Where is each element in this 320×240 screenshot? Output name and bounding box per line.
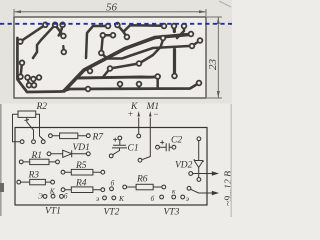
wire R2 left lead: [13, 114, 21, 142]
wire middle horizontal y77: [76, 77, 158, 78]
node pads R1: [19, 160, 23, 164]
gray wash of top photo region: [0, 0, 232, 104]
capacitor C1: [112, 140, 127, 155]
dimension 56 line: [14, 9, 206, 16]
scan artifact top right corner: [219, 1, 231, 7]
node pads R4: [61, 188, 65, 192]
node pads C2: [156, 145, 160, 149]
capacitor C2: [159, 143, 172, 151]
wire R6 leads: [127, 186, 162, 188]
dimension 23 line: [207, 17, 222, 98]
pcb board PCB outline: [14, 17, 206, 98]
labels bottom figure: [28, 102, 235, 218]
resistor R2 body: [18, 111, 36, 117]
wire R1 leads: [23, 161, 55, 163]
wire main thick diagonal: [64, 35, 189, 92]
svg-text:R6: R6: [136, 175, 148, 185]
wire A3 to A5: [55, 25, 63, 36]
diode VD1: [51, 153, 86, 155]
node pads VD1: [47, 152, 51, 156]
resistor R6 body: [136, 184, 153, 190]
svg-text:б: б: [151, 194, 155, 203]
svg-text:VD2: VD2: [175, 161, 193, 171]
wire vertical to D8: [172, 26, 176, 32]
svg-text:+: +: [128, 109, 133, 119]
wire from pad A3: [33, 25, 55, 58]
svg-text:э: э: [96, 194, 99, 203]
motor M1 minus wire: [142, 118, 151, 160]
svg-text:б: б: [64, 192, 68, 201]
node pads R7: [49, 134, 53, 138]
wire A13 stub: [62, 46, 65, 52]
svg-text:R3: R3: [28, 171, 40, 181]
wire corner trace to B2: [86, 26, 108, 58]
wire R7 leads: [53, 135, 87, 137]
svg-text:R5: R5: [75, 161, 87, 171]
node pads VT3: [160, 195, 164, 199]
wire vertical to D8 lower part: [173, 50, 176, 74]
wire D3 curve: [177, 26, 184, 38]
svg-text:R1: R1: [31, 151, 43, 161]
svg-text:R4: R4: [75, 179, 87, 189]
wire cluster stubs: [28, 78, 30, 86]
scan artifact right edge: [230, 104, 232, 217]
board outline bottom figure: [15, 128, 207, 206]
wire B6-B7-C3-D4: [103, 40, 163, 77]
svg-text:к: к: [172, 187, 176, 196]
paper background: [0, 0, 232, 217]
svg-text:VT3: VT3: [164, 208, 180, 218]
node pads R3: [17, 180, 21, 184]
pads of bottom figure: [17, 134, 201, 200]
arrow to M1 minus: [149, 111, 151, 117]
node pads VT2: [103, 196, 107, 200]
fold line (blue dashed): [0, 23, 232, 25]
node pads VD2 chain: [197, 137, 201, 141]
node pads R6: [123, 185, 127, 189]
wire R5 leads: [65, 171, 101, 173]
wire D6-D7: [192, 41, 200, 47]
wire R2 wiper: [27, 117, 34, 139]
motor M1 plus wire: [138, 118, 140, 135]
resistor R1 body: [30, 159, 49, 164]
svg-text:R7: R7: [92, 133, 105, 143]
svg-text:Э: Э: [38, 192, 43, 201]
PCB pads: [17, 22, 203, 93]
svg-text:VT1: VT1: [45, 207, 61, 217]
svg-text:э: э: [186, 194, 189, 203]
node pads M1: [137, 134, 141, 138]
wire B3-B4 L-shape: [101, 35, 113, 52]
diode VD2 with wires: [194, 141, 203, 178]
wire to lower arrow: [191, 189, 213, 193]
wire pad stubs bottom: [119, 84, 121, 89]
wire R3 leads: [21, 181, 51, 183]
node pads R5: [61, 170, 65, 174]
PCB copper traces: [17, 25, 200, 92]
wire Y from C1p to D1: [117, 25, 163, 32]
wire R2 right lead: [36, 114, 44, 139]
wire R4 leads: [65, 189, 101, 191]
node pad lower arrow: [187, 186, 191, 190]
scan artifact left edge: [0, 104, 2, 216]
wire diagonal to pad A2: [20, 25, 45, 42]
wire z3 zigzag to D6: [101, 46, 189, 59]
node pads VT1: [43, 195, 47, 199]
resistor R4 body: [71, 187, 93, 193]
resistor R7 body: [60, 133, 78, 139]
wire B6 stub: [85, 69, 90, 71]
node pads C1: [118, 136, 122, 140]
svg-text:−: −: [154, 109, 159, 119]
wire A6-A7 vertical: [21, 63, 23, 77]
arrow to M1 plus: [138, 111, 140, 117]
svg-text:C2: C2: [171, 136, 182, 146]
svg-text:VD1: VD1: [73, 143, 90, 153]
svg-text:C1: C1: [128, 144, 139, 154]
wire to upper arrow: [193, 173, 213, 175]
wire left outline trace: [17, 38, 199, 92]
resistor R3 body: [30, 179, 46, 184]
svg-text:б: б: [111, 179, 115, 188]
scan grain overlay top region: [0, 0, 232, 104]
wire pad A4 hook: [59, 25, 63, 36]
svg-text:VT2: VT2: [104, 208, 120, 218]
wire vertical x157: [156, 77, 159, 89]
node pads R2 row: [20, 140, 24, 144]
resistor R5 body: [71, 169, 93, 175]
